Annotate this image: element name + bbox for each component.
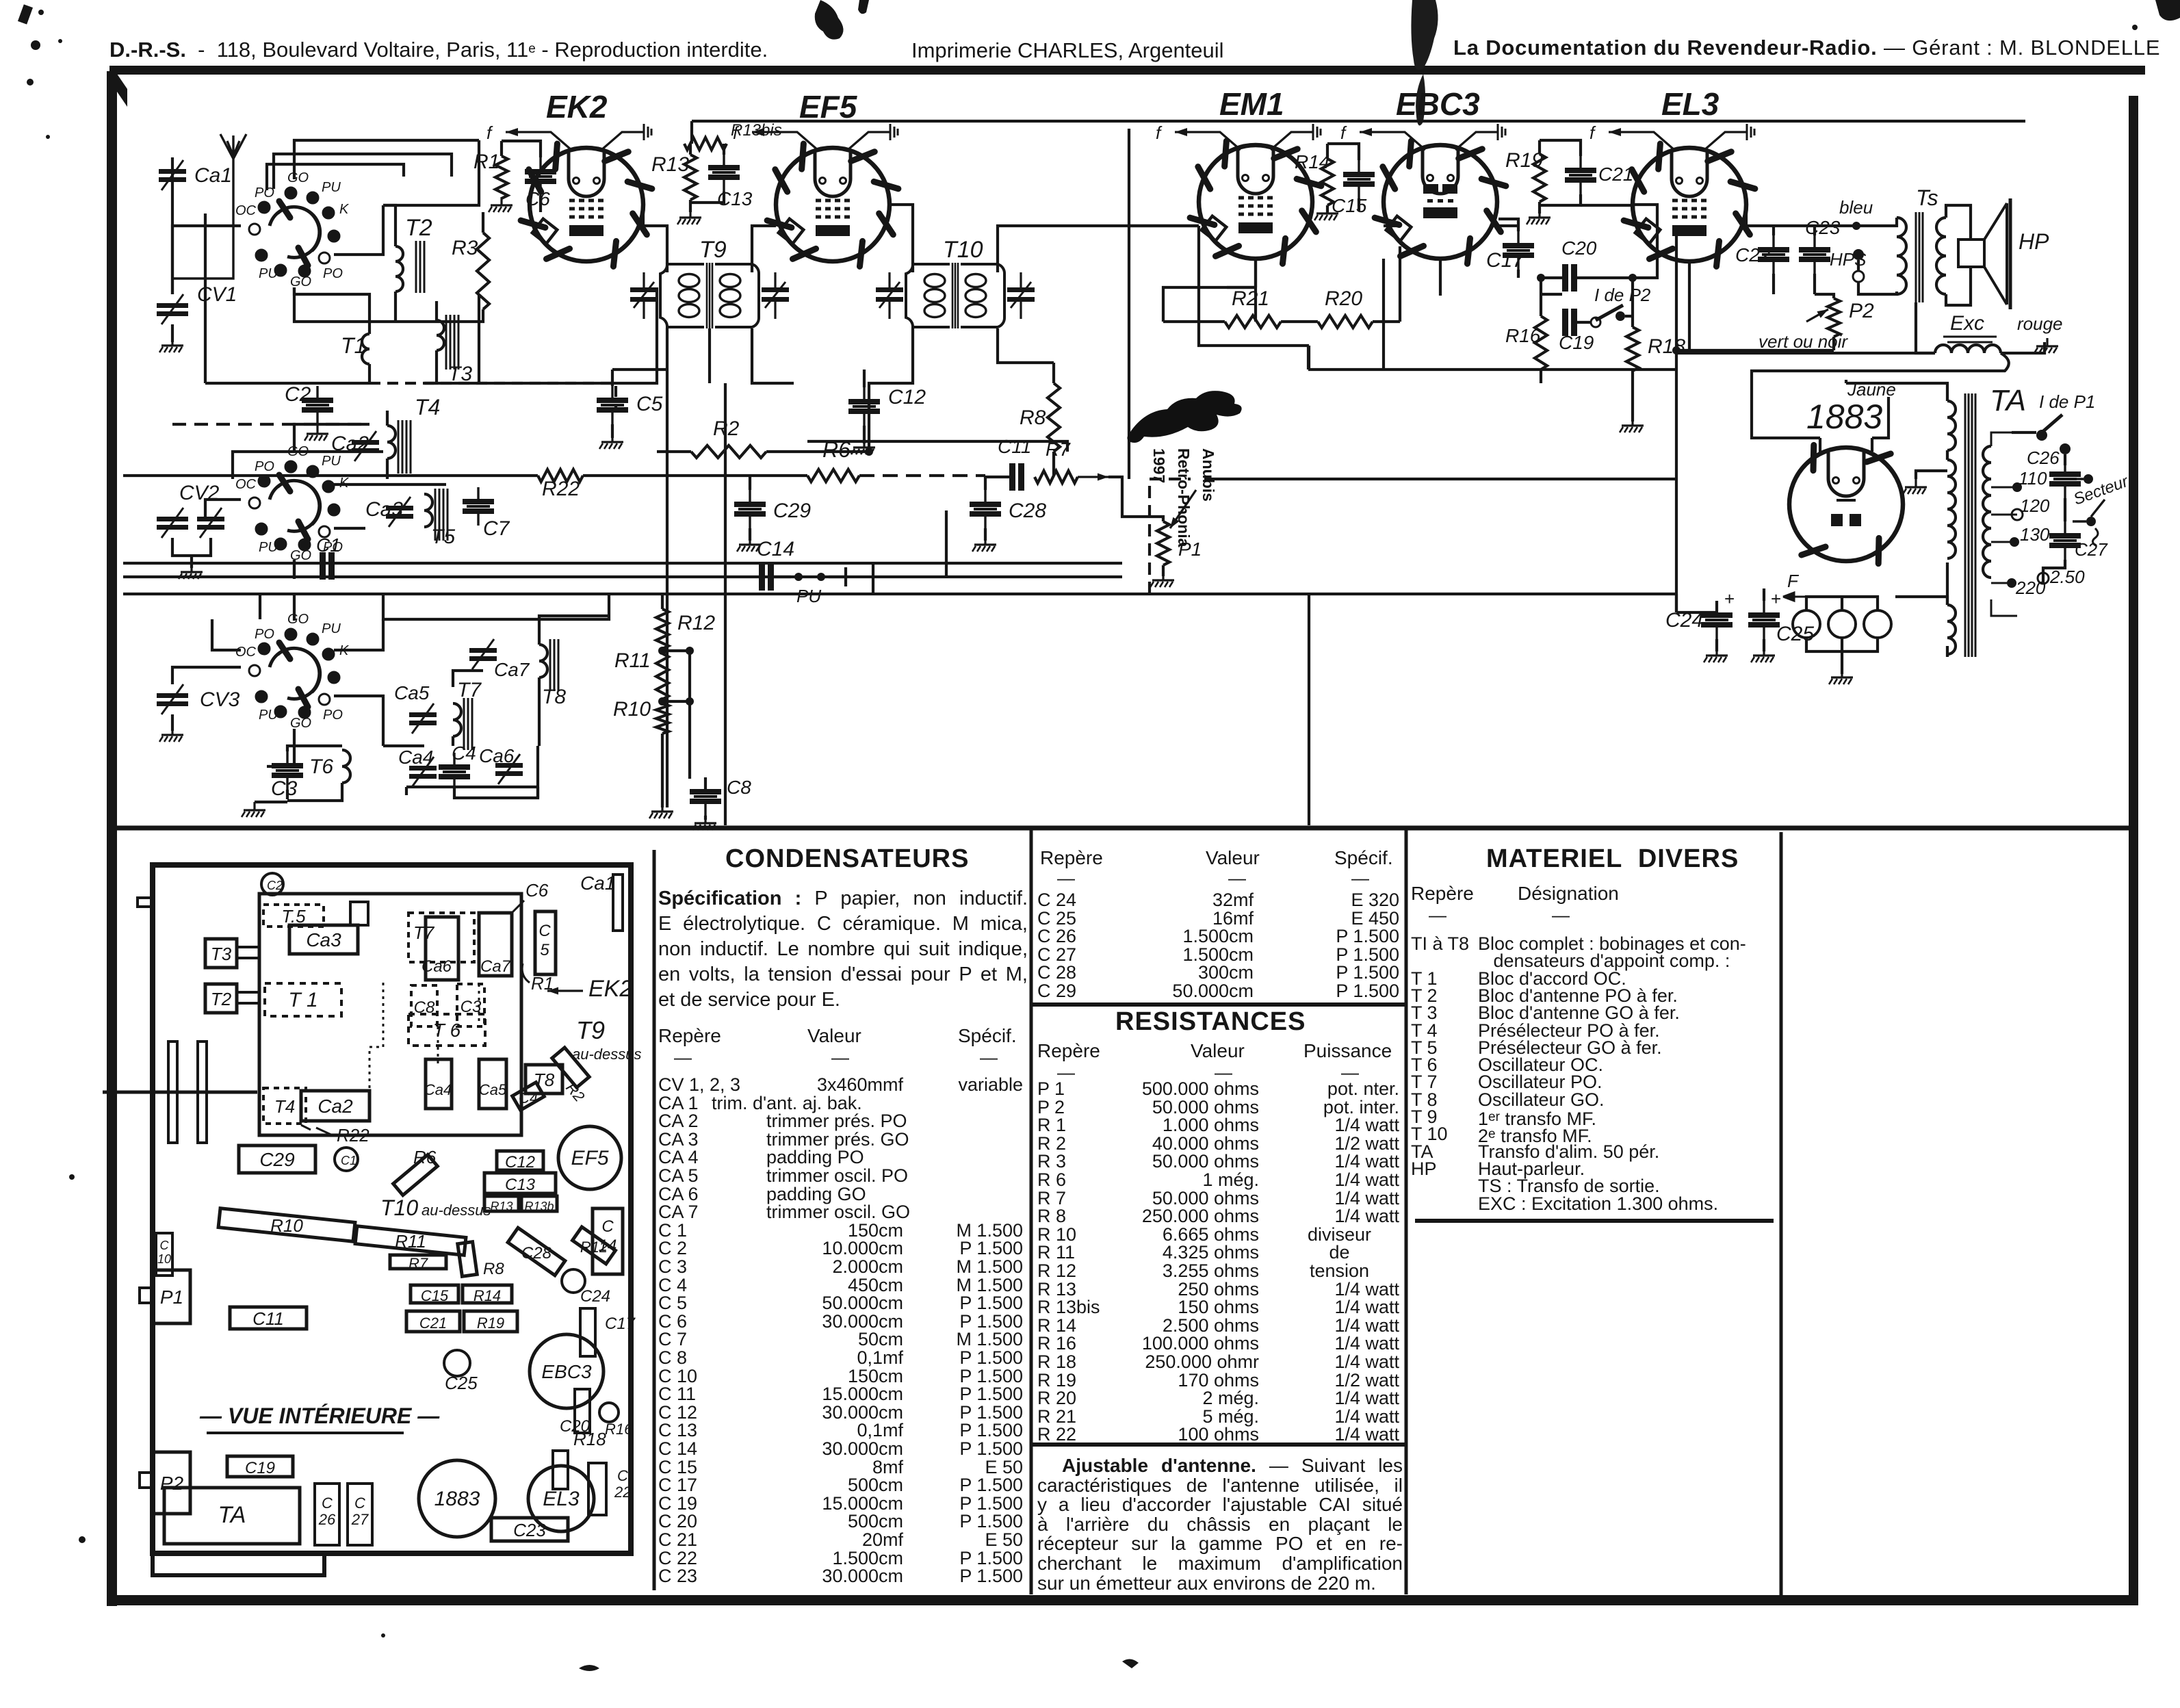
tube 1883 bbox=[1789, 445, 1903, 563]
capacitor C19 bbox=[1562, 309, 1577, 336]
svg-text:OC: OC bbox=[235, 645, 257, 660]
P2 knob bbox=[140, 1473, 153, 1488]
svg-text:f: f bbox=[1156, 122, 1163, 143]
svg-text:R21: R21 bbox=[1232, 287, 1269, 310]
svg-text:GO: GO bbox=[290, 274, 311, 289]
svg-text:TA: TA bbox=[1990, 384, 2026, 417]
wire C24 C25 down bbox=[1717, 639, 1764, 651]
wire EM1 loop bbox=[1199, 226, 1309, 346]
svg-text:C23: C23 bbox=[513, 1520, 546, 1540]
wire TS to HP bbox=[1946, 205, 1971, 305]
capacitor C26sch bbox=[2049, 460, 2081, 498]
wire R20 up bbox=[1399, 246, 1401, 322]
ground R19 bbox=[1527, 209, 1550, 224]
rotary switch S2 bbox=[235, 444, 350, 563]
svg-text:R14: R14 bbox=[473, 1287, 501, 1304]
junction bbox=[2010, 537, 2019, 547]
wire C24 C25 top bbox=[1676, 588, 1764, 612]
svg-text:rouge: rouge bbox=[2017, 313, 2063, 334]
svg-text:Ca1: Ca1 bbox=[580, 872, 615, 894]
box C13 chassis bbox=[484, 1173, 556, 1193]
wire C21 link bbox=[1581, 204, 1633, 207]
wire EK2 to T9 bbox=[643, 205, 667, 272]
wire harness dash620 bbox=[172, 423, 369, 426]
wire R21 R20 leads bbox=[1163, 320, 1400, 323]
ground R14 bbox=[1314, 205, 1338, 220]
wire to EL3 grid bbox=[1633, 205, 1657, 278]
box R14 chassis bbox=[463, 1285, 512, 1303]
coil T4 bbox=[387, 426, 395, 458]
box C19 chassis bbox=[227, 1456, 293, 1477]
wire C28 bbox=[984, 477, 987, 541]
svg-text:T6: T6 bbox=[309, 755, 333, 778]
wire C11 left bbox=[985, 476, 1009, 478]
svg-text:R18: R18 bbox=[573, 1429, 606, 1449]
svg-text:27: 27 bbox=[351, 1511, 369, 1528]
scan marks bottom bbox=[69, 1174, 1139, 1671]
chassis outline bbox=[153, 865, 631, 1553]
svg-text:T2: T2 bbox=[211, 989, 232, 1009]
wire loop under S3 bbox=[383, 594, 609, 619]
svg-text:Ca6: Ca6 bbox=[421, 957, 452, 976]
wire R6 top loop bbox=[807, 441, 1067, 452]
svg-text:Ca1: Ca1 bbox=[194, 164, 232, 187]
wire top HT line bbox=[692, 120, 2025, 122]
svg-text:PU: PU bbox=[322, 180, 341, 195]
svg-text:C: C bbox=[617, 1467, 628, 1484]
wire harness sw3a bbox=[212, 619, 241, 650]
box R12 bar bbox=[573, 1227, 616, 1264]
coil TS primary bbox=[1897, 218, 1906, 294]
box Ca4 chassis bbox=[426, 1059, 452, 1109]
wire C17 bbox=[1498, 219, 1518, 278]
wire C22 C23 bbox=[1746, 226, 1856, 294]
svg-text:PU: PU bbox=[322, 621, 341, 636]
svg-text:C6: C6 bbox=[525, 880, 549, 901]
resistor R16 bbox=[1535, 316, 1547, 370]
svg-text:OC: OC bbox=[235, 203, 257, 218]
circle EF5 chassis bbox=[558, 1126, 621, 1189]
wire EL3 cathode down bbox=[1688, 261, 1691, 353]
svg-text:GO: GO bbox=[287, 612, 309, 627]
tube EBC3 top leads bbox=[1340, 122, 1505, 150]
resistor R12 bbox=[656, 609, 669, 649]
watermark bird bbox=[1127, 391, 1241, 443]
wire EL3 cathode down bbox=[1675, 226, 1678, 612]
wire S3 T6 bbox=[383, 745, 424, 747]
chassis bottom tab bbox=[153, 1553, 324, 1575]
svg-text:bleu: bleu bbox=[1839, 197, 1873, 218]
wire S2 top bbox=[294, 424, 369, 453]
box C5 chassis bbox=[535, 911, 556, 974]
capacitor C11 bbox=[1009, 463, 1024, 491]
wire T4 leads bbox=[386, 411, 389, 479]
svg-text:1883: 1883 bbox=[434, 1488, 480, 1510]
svg-text:Ca7: Ca7 bbox=[494, 659, 530, 680]
box TA chassis bbox=[164, 1488, 300, 1544]
resistor R7 bbox=[1035, 471, 1078, 483]
resistor R1 bbox=[495, 156, 508, 198]
variable capacitor CV2 bbox=[157, 508, 188, 538]
svg-text:C25: C25 bbox=[445, 1373, 478, 1393]
variable capacitor CV2b bbox=[197, 508, 224, 538]
svg-text:C29: C29 bbox=[259, 1149, 294, 1170]
box T5 stub bbox=[350, 902, 368, 925]
switch HPS bbox=[1853, 249, 1864, 282]
wire S3 to CV3 bbox=[172, 667, 241, 684]
potentiometer P1 bbox=[1157, 521, 1169, 565]
box T7 dotted bbox=[408, 913, 474, 962]
wire AF tap bbox=[1150, 479, 1191, 594]
wire EF5 to T10 bbox=[890, 205, 913, 272]
svg-text:T4: T4 bbox=[415, 395, 440, 419]
wire R14 C15 bbox=[1327, 144, 1359, 211]
box C21 chassis bbox=[406, 1311, 460, 1332]
box C20 chassis bbox=[575, 1389, 590, 1433]
svg-text:+: + bbox=[1724, 588, 1735, 609]
wire EBC3 bottom bbox=[1439, 259, 1442, 296]
ground CV3 bbox=[159, 727, 183, 742]
svg-text:C28: C28 bbox=[521, 1244, 552, 1263]
R1 pointer bbox=[522, 963, 530, 983]
junction bbox=[686, 647, 694, 655]
bar Ca1 chassis bbox=[613, 875, 623, 931]
wire harness1 bbox=[383, 140, 479, 205]
filament lamps bbox=[1793, 610, 1891, 638]
rule under materiel divers bbox=[1415, 1219, 1774, 1223]
svg-text:R13: R13 bbox=[490, 1200, 512, 1213]
wire AVC bus left bbox=[123, 474, 538, 477]
svg-text:T8: T8 bbox=[534, 1070, 555, 1090]
wire vertical x1060 low bbox=[724, 579, 727, 825]
svg-text:PU: PU bbox=[259, 540, 278, 555]
box C4 tilted bbox=[512, 1083, 545, 1111]
chassis small left pin bbox=[138, 898, 153, 907]
tube EK2 bbox=[521, 144, 652, 266]
resistor R22 bbox=[538, 469, 583, 482]
capacitor C14 bbox=[759, 563, 774, 591]
svg-text:C: C bbox=[538, 922, 551, 940]
capacitor C17 bbox=[1503, 231, 1534, 270]
wire osc bottom bus bbox=[406, 787, 538, 798]
svg-text:PU: PU bbox=[322, 454, 341, 469]
transformer T10 bbox=[876, 263, 1035, 328]
core TS bbox=[1916, 212, 1923, 302]
ground exc bbox=[2034, 338, 2058, 353]
tab T3 leads bbox=[237, 947, 259, 958]
svg-text:R7: R7 bbox=[408, 1255, 428, 1272]
svg-text:R10: R10 bbox=[613, 698, 651, 721]
box T4 dotted bbox=[263, 1088, 306, 1124]
bloc bobinage outline bbox=[259, 894, 521, 1135]
wire HT drop bbox=[690, 121, 693, 144]
ground P1 bbox=[1150, 572, 1174, 587]
box C14 chassis bbox=[593, 1208, 623, 1274]
wire R16 down bbox=[1540, 370, 1542, 383]
wire TA feed bbox=[1846, 380, 1880, 383]
svg-text:PO: PO bbox=[255, 459, 274, 474]
svg-text:T7: T7 bbox=[457, 679, 482, 701]
ground R13 bbox=[677, 209, 701, 224]
capacitor C22 bbox=[1758, 235, 1789, 274]
svg-text:F: F bbox=[1787, 571, 1800, 591]
ground R1 bbox=[489, 197, 512, 212]
wire lamps top bbox=[1806, 597, 1878, 610]
wire P1 wiper bbox=[1170, 490, 1196, 528]
wire harness v300 bbox=[204, 213, 207, 383]
svg-text:C: C bbox=[601, 1217, 614, 1236]
resistor R20 bbox=[1318, 315, 1373, 328]
ground R18 bbox=[1620, 417, 1644, 432]
resistor R8 bbox=[1048, 383, 1060, 452]
box T1 dotted bbox=[265, 983, 341, 1016]
svg-text:T3: T3 bbox=[211, 944, 232, 964]
box C23 chassis bbox=[491, 1518, 568, 1541]
junction bbox=[1628, 274, 1637, 282]
box P2 chassis bbox=[153, 1452, 190, 1514]
svg-text:R13bis: R13bis bbox=[731, 121, 782, 140]
wire link 823-868 bbox=[872, 563, 874, 594]
core TA bbox=[1965, 393, 1969, 657]
wire EM1 left feed bbox=[1129, 129, 1199, 226]
wire 1883 plate1 bbox=[1752, 383, 1820, 453]
ground C8 bbox=[692, 815, 716, 830]
svg-text:f: f bbox=[486, 122, 493, 143]
wire S2 drop bbox=[293, 560, 296, 577]
wire T10 down bbox=[869, 328, 913, 452]
capacitor C15 bbox=[1343, 160, 1375, 198]
svg-text:C2: C2 bbox=[285, 383, 311, 406]
svg-text:EBC3: EBC3 bbox=[1396, 86, 1480, 122]
svg-text:5: 5 bbox=[540, 941, 549, 959]
svg-text:P2: P2 bbox=[1849, 300, 1874, 322]
svg-text:R20: R20 bbox=[1325, 287, 1362, 310]
resistor R13 bbox=[684, 155, 697, 200]
svg-text:C23: C23 bbox=[1805, 217, 1841, 238]
svg-text:C22: C22 bbox=[1735, 244, 1771, 266]
wire T2 top bbox=[383, 205, 395, 246]
svg-text:C3: C3 bbox=[271, 777, 298, 800]
capacitor C23 bbox=[1799, 235, 1830, 274]
wire T9 down bbox=[667, 328, 710, 807]
box Ca7 chassis bbox=[479, 913, 512, 976]
svg-text:+: + bbox=[1771, 588, 1781, 609]
wire R13 C13 bbox=[690, 144, 724, 212]
box C22 chassis bbox=[588, 1463, 606, 1515]
svg-text:C14: C14 bbox=[757, 538, 794, 560]
wire IdeP1 bbox=[2012, 432, 2065, 465]
chassis dotted lines bbox=[369, 983, 479, 1122]
box C11 chassis bbox=[230, 1307, 307, 1329]
wire S2 right bbox=[334, 527, 365, 530]
core T8 bbox=[550, 639, 558, 691]
wire exc bbox=[1916, 302, 2045, 353]
svg-text:EM1: EM1 bbox=[1219, 86, 1284, 122]
secteur squiggle bbox=[2092, 528, 2098, 546]
wire vert ou noir bbox=[1676, 352, 1935, 354]
box T6 dotted bbox=[408, 1014, 485, 1046]
svg-text:R22: R22 bbox=[337, 1125, 369, 1146]
ground C29 bbox=[737, 536, 761, 552]
capacitor C5 bbox=[597, 386, 628, 424]
svg-text:C2: C2 bbox=[267, 879, 283, 892]
ground C12 bbox=[851, 439, 875, 454]
P1 knob bbox=[140, 1288, 153, 1303]
box T5 dotted bbox=[263, 905, 324, 927]
wire AVC bus mid bbox=[583, 474, 807, 477]
circle C2 chassis bbox=[261, 873, 283, 895]
core T2 bbox=[416, 241, 424, 293]
coil EXC field bbox=[1935, 345, 2001, 353]
box Ca2 chassis bbox=[301, 1091, 369, 1121]
svg-text:au-dessus: au-dessus bbox=[421, 1202, 491, 1219]
svg-text:CV2: CV2 bbox=[179, 482, 220, 504]
wire x1650 down bbox=[1128, 226, 1130, 479]
wire S3 right bbox=[334, 696, 383, 746]
wire T9 to EF5 bbox=[752, 226, 794, 383]
svg-text:130: 130 bbox=[2020, 524, 2050, 545]
circle 1883 chassis bbox=[419, 1460, 495, 1537]
svg-text:C: C bbox=[354, 1494, 365, 1512]
capacitor C4 bbox=[439, 753, 470, 791]
svg-text:T4: T4 bbox=[274, 1096, 295, 1117]
svg-text:C8: C8 bbox=[727, 777, 751, 798]
wire T1 bottom bbox=[368, 364, 371, 383]
svg-text:R7: R7 bbox=[1046, 439, 1071, 460]
svg-text:R12: R12 bbox=[677, 612, 715, 634]
scan speckles top right corner bbox=[2132, 0, 2180, 30]
ground C25 bbox=[1751, 647, 1775, 662]
capacitor C21 bbox=[1565, 156, 1596, 194]
svg-text:Exc: Exc bbox=[1950, 312, 1984, 335]
coil TA fil bbox=[1947, 605, 1956, 654]
wire vertical x1383 bbox=[945, 510, 948, 577]
svg-text:PU: PU bbox=[796, 586, 821, 606]
junction bbox=[1852, 222, 1860, 230]
wire T8 top bbox=[539, 616, 609, 645]
wire under EBC3 bbox=[1308, 346, 1676, 370]
transformer T9 bbox=[630, 263, 789, 328]
section divider line bbox=[117, 826, 2129, 831]
svg-text:R6: R6 bbox=[413, 1147, 437, 1167]
svg-text:T10: T10 bbox=[380, 1195, 418, 1220]
svg-text:TA: TA bbox=[218, 1502, 246, 1528]
box C26 chassis bbox=[315, 1484, 339, 1545]
tube EL3 top leads bbox=[1589, 122, 1754, 150]
svg-text:R11: R11 bbox=[395, 1231, 426, 1252]
resistor R14 bbox=[1321, 159, 1334, 205]
svg-text:T10: T10 bbox=[943, 237, 983, 263]
coil TA hv mid bbox=[1947, 460, 1956, 558]
box T8 chassis bbox=[525, 1065, 562, 1094]
core TA2 bbox=[1972, 393, 1975, 657]
box R19 chassis bbox=[464, 1311, 517, 1332]
capacitor C12 bbox=[848, 387, 880, 426]
svg-text:EL3: EL3 bbox=[1661, 86, 1720, 122]
svg-text:C28: C28 bbox=[1009, 500, 1046, 522]
svg-text:EF5: EF5 bbox=[571, 1147, 608, 1169]
wire T10 to EM1 bbox=[998, 226, 1199, 272]
coil TS secondary bbox=[1936, 218, 1946, 294]
scan blob near EM1 top bbox=[1411, 0, 1438, 70]
wire S1 bottom bbox=[294, 287, 417, 322]
wire harness sw3b bbox=[334, 619, 383, 650]
junction bbox=[658, 647, 666, 655]
svg-text:C17: C17 bbox=[1486, 249, 1524, 272]
circle R16 chassis bbox=[599, 1403, 619, 1422]
wire harness2 bbox=[424, 287, 657, 383]
box Ca6 chassis bbox=[426, 917, 458, 980]
svg-text:CV1: CV1 bbox=[197, 283, 237, 306]
svg-text:C19: C19 bbox=[245, 1459, 275, 1477]
box C29 chassis bbox=[239, 1146, 315, 1173]
ground C24 bbox=[1704, 647, 1728, 662]
coil T8 bbox=[539, 645, 547, 677]
svg-text:Ts: Ts bbox=[1916, 185, 1938, 210]
svg-text:C: C bbox=[160, 1239, 170, 1252]
svg-text:C24: C24 bbox=[580, 1287, 610, 1306]
capacitor C25 bbox=[1748, 601, 1780, 639]
box R11 bar bbox=[355, 1226, 466, 1256]
core T7 bbox=[464, 698, 472, 750]
wire R19 C21 bbox=[1540, 140, 1581, 205]
junction bbox=[2012, 482, 2022, 492]
wire R7 arrow bbox=[1078, 474, 1108, 481]
svg-text:C17: C17 bbox=[605, 1315, 636, 1333]
svg-text:R13: R13 bbox=[651, 153, 689, 176]
wire C26 C27 bbox=[2043, 498, 2065, 584]
capacitor C28 bbox=[970, 490, 1001, 528]
border frame right bar bbox=[2129, 96, 2138, 1603]
svg-text:I de P1: I de P1 bbox=[2039, 391, 2095, 412]
wire R3 bbox=[417, 212, 483, 322]
coil T7 bbox=[453, 703, 461, 736]
junction bbox=[817, 573, 825, 581]
wire R18 down bbox=[1631, 371, 1634, 422]
tube EBC3 bbox=[1375, 141, 1506, 263]
wire harness v700 bbox=[478, 294, 480, 383]
wire P1 down bbox=[1162, 565, 1165, 576]
box Ca5 chassis bbox=[479, 1059, 506, 1109]
wire T3 leads bbox=[424, 301, 437, 383]
tube EF5 top leads bbox=[733, 122, 898, 150]
switch I de P1 bbox=[2036, 415, 2071, 454]
rule left of materiel column bbox=[1405, 829, 1408, 1594]
svg-text:C20: C20 bbox=[1561, 237, 1597, 259]
wire x2450 low bbox=[1675, 594, 1678, 612]
svg-text:vert ou noir: vert ou noir bbox=[1759, 331, 1848, 352]
wire S3 top bbox=[293, 594, 296, 621]
svg-text:R13b: R13b bbox=[524, 1200, 554, 1213]
border frame bottom bar bbox=[107, 1595, 2138, 1605]
svg-text:GO: GO bbox=[290, 716, 311, 731]
box Ca3 chassis bbox=[289, 925, 358, 954]
wire R1 C6 bbox=[502, 141, 541, 212]
capacitor C1 bbox=[320, 552, 335, 580]
box R13 chassis bbox=[484, 1196, 519, 1211]
tube EL3 bbox=[1624, 144, 1755, 266]
wire P1 to AF bbox=[1204, 478, 1676, 480]
rotary switch S1 bbox=[235, 170, 350, 289]
ground C2 bbox=[304, 426, 328, 441]
svg-text:R8: R8 bbox=[1020, 406, 1046, 429]
border frame top bar bbox=[109, 66, 2145, 75]
capacitor C2 bbox=[302, 386, 333, 424]
svg-text:PO: PO bbox=[323, 266, 343, 281]
svg-text:C1: C1 bbox=[316, 534, 341, 556]
svg-text:Ca6: Ca6 bbox=[479, 745, 515, 766]
ground TA ct bbox=[1903, 479, 1927, 494]
